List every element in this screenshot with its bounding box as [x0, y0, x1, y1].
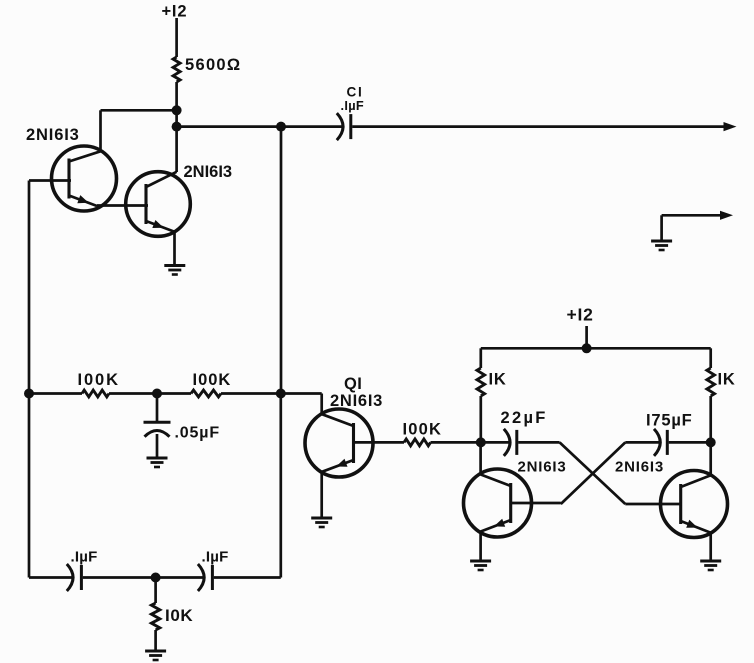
svg-text:.IµF: .IµF: [202, 549, 229, 566]
svg-text:I00K: I00K: [403, 421, 443, 439]
svg-text:+I2: +I2: [567, 305, 594, 325]
svg-text:I0K: I0K: [165, 606, 193, 625]
svg-text:.IµF: .IµF: [341, 98, 365, 113]
svg-text:2NI6I3: 2NI6I3: [330, 392, 383, 410]
svg-text:I00K: I00K: [193, 371, 232, 389]
svg-text:+I2: +I2: [162, 3, 188, 21]
svg-text:2NI6I3: 2NI6I3: [26, 126, 80, 144]
svg-text:.IµF: .IµF: [71, 549, 98, 566]
svg-text:IK: IK: [489, 371, 507, 389]
svg-text:2NI6I3: 2NI6I3: [184, 163, 233, 181]
svg-text:2NI6I3: 2NI6I3: [615, 459, 664, 476]
svg-text:I75µF: I75µF: [646, 412, 693, 430]
svg-text:2NI6I3: 2NI6I3: [518, 459, 567, 476]
svg-text:22µF: 22µF: [501, 409, 548, 427]
svg-text:.05µF: .05µF: [175, 425, 220, 442]
svg-text:I00K: I00K: [78, 371, 120, 389]
svg-text:IK: IK: [718, 371, 736, 389]
svg-text:QI: QI: [344, 375, 362, 393]
svg-text:5600Ω: 5600Ω: [185, 56, 241, 74]
